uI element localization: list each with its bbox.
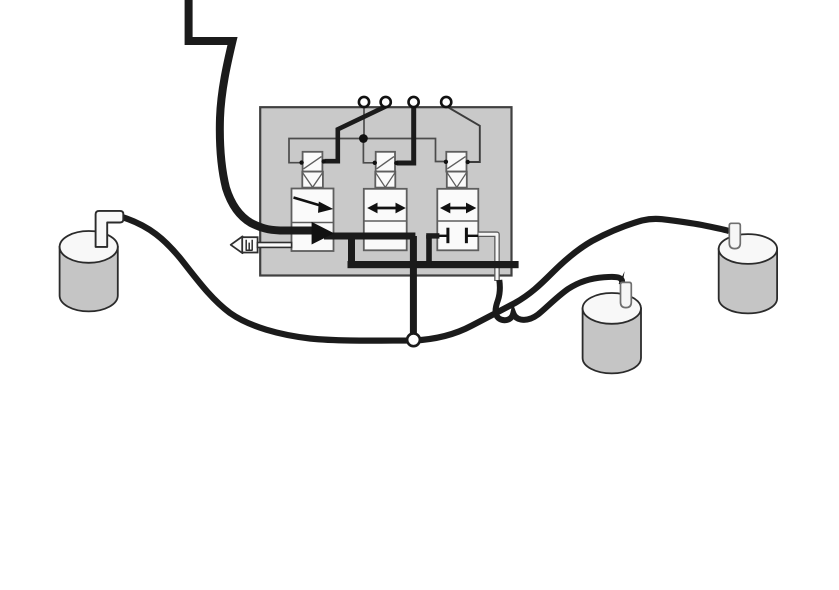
left cylinder elbow fitting [96,211,124,247]
terminal T2 [381,97,391,107]
wire terminal1 drop [363,107,365,138]
right cylinder [719,234,777,313]
terminal T4 [441,97,451,107]
valve V1 flow arrow [294,198,334,213]
left cylinder [60,231,118,311]
right cylinder pipe [729,223,740,248]
valve V1 filter box [302,172,323,188]
nozzle body [242,237,257,252]
junction ring [407,333,420,346]
valve V3 body [437,189,478,251]
hose left-cylinder to junction to right-cylinder [122,217,729,341]
supply arrow head [312,222,334,245]
nozzle body marks [246,240,253,251]
coil terminal dots [299,159,470,165]
tube vertical V1 [348,236,355,268]
valve V2 filter box [375,172,395,188]
middle cylinder [583,293,641,373]
tube bar [348,261,519,268]
valve V2 double arrow [367,203,406,214]
valve V1 body [292,189,334,252]
valve V3 coil [446,152,466,172]
nozzle pipe [257,243,291,248]
valve V3 double arrow [440,203,476,214]
terminal T1 [359,97,369,107]
junction dot [359,134,368,143]
tube stub into valve3 [426,233,439,238]
valve V3 contact symbol [439,228,478,244]
tube vertical V2 to junction [410,236,417,334]
valve V1 coil [303,152,323,172]
middle cylinder hose tip spur [619,271,625,284]
hose outlet-pipe to middle cylinder with loop [496,277,623,320]
wire thick terminal3 to coil2 [397,107,414,164]
supply hose from top [189,0,313,231]
valve V2 body [364,189,407,251]
manifold block [260,107,511,275]
valve V3 filter box [447,172,467,188]
wire thick terminal2 to coil1 [325,106,387,161]
terminal T3 [409,97,419,107]
tube horizontal H1 [324,233,415,240]
wire bus (common) [289,139,445,163]
valve V2 coil [376,152,395,172]
wire terminal4 to coil3 [447,107,480,163]
tube vertical V3 [426,235,432,265]
wire jog to valve2 coil [363,139,374,163]
outlet pipe from valve3 [479,234,498,281]
nozzle tip [231,236,243,253]
middle cylinder pipe [621,282,632,307]
